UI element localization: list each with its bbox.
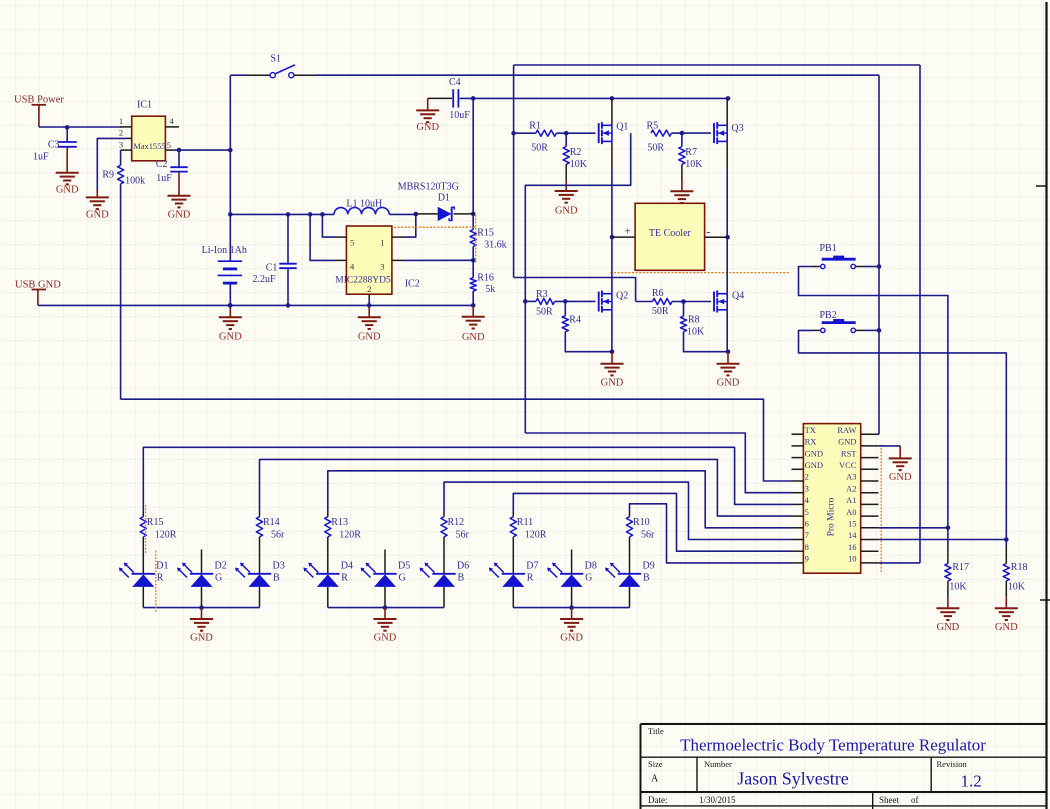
wire R10 net to pin 9 [630,504,792,563]
resistor R18 10K [1005,546,1007,564]
wire S1 right to PB column [316,74,879,76]
svg-text:31.6k: 31.6k [484,239,507,250]
wire R12 net to pin 7 [444,482,792,539]
wire Q4 drain to TE- [726,237,728,294]
svg-text:VCC: VCC [839,460,857,470]
LED D7 (R) [495,564,504,573]
svg-text:TE Cooler: TE Cooler [649,228,692,239]
transistor Q2 [598,292,600,312]
wire pin5 to battery rail [176,149,230,151]
resistor R8 10K [684,301,712,303]
svg-text:14: 14 [848,530,857,540]
svg-text:Q4: Q4 [732,291,744,302]
LED D6 (B) [426,564,435,573]
ground under LEDs [560,618,583,620]
LED D4 (R) [310,564,319,573]
svg-text:C2: C2 [156,159,168,170]
svg-text:9: 9 [805,554,809,564]
svg-text:3: 3 [805,483,809,493]
svg-text:2: 2 [119,128,123,138]
svg-text:GND: GND [168,210,191,221]
svg-text:Thermoelectric Body Temperatur: Thermoelectric Body Temperature Regulato… [680,736,986,755]
svg-text:D7: D7 [526,561,538,572]
svg-text:R9: R9 [102,170,114,181]
svg-text:G: G [399,573,406,584]
ground under LEDs [190,618,213,620]
wire D9 cathode [629,587,631,608]
svg-text:RAW: RAW [837,425,856,435]
svg-text:10K: 10K [687,326,705,337]
svg-text:R: R [341,573,348,584]
svg-text:B: B [643,573,650,584]
wire GND pin to ground [878,445,900,447]
pin 4 [165,126,179,128]
LED D2 (G) [184,564,193,573]
svg-text:D1: D1 [438,192,450,203]
regulator IC2 MIC2288YD5 [346,226,392,294]
wire C3 to GND [66,147,68,173]
LED D9 (B) [612,564,621,573]
op-amp IC1 Max1555 [132,116,166,161]
svg-text:R1: R1 [529,121,541,132]
pin GND (right 2) [861,445,879,447]
stub above D8 [571,550,573,574]
transistor Q1 [598,123,600,143]
svg-text:R15: R15 [477,227,494,238]
svg-text:1uF: 1uF [156,173,172,184]
wire pin 14 [878,539,1006,541]
wire R9 net to pin 2 [121,399,792,481]
pin 1 [121,126,132,128]
ground under R16 [462,316,485,318]
svg-text:3: 3 [380,262,384,272]
pin 2 [126,137,132,139]
resistor R10 56r [629,512,631,517]
pin A3 (right 5) [861,480,879,482]
resistor R1 50R [511,131,516,136]
junction [65,125,70,130]
svg-text:R10: R10 [633,517,650,528]
orange markers near D1 [145,505,147,554]
resistor R17 10K [947,546,949,564]
wire pin2 to GND [97,138,126,190]
svg-text:2.2uF: 2.2uF [253,274,277,285]
pin 3 [121,149,132,151]
svg-text:1/30/2015: 1/30/2015 [699,795,736,805]
svg-text:120R: 120R [155,530,177,541]
svg-text:GND: GND [219,332,242,343]
svg-text:GND: GND [889,472,912,483]
resistor R2 10K [565,133,567,146]
wire C4 net down to divider [472,98,474,229]
svg-text:MIC2288YD5: MIC2288YD5 [335,276,391,286]
svg-text:10: 10 [848,554,857,564]
pin 14 (right 10) [861,539,879,541]
resistor R3 50R [525,300,536,302]
svg-text:GND: GND [601,378,624,389]
pin 2 (left 5) [792,480,804,482]
wire Q1 source to TE+ [611,141,613,168]
pin GND (left 3) [792,457,804,459]
resistor R14 56r [259,512,261,517]
pin 4 [336,259,347,261]
pin 5 [336,236,347,238]
svg-text:50R: 50R [652,306,669,317]
svg-text:D3: D3 [273,561,285,572]
ground under Q4 [717,363,740,365]
svg-text:16: 16 [848,542,857,552]
svg-text:GND: GND [190,633,213,644]
svg-text:5: 5 [350,237,354,247]
resistor R15 120R [142,512,144,517]
wire Q2 drain to TE+ [611,237,613,294]
wire R11 net to pin 8 [513,493,791,551]
wire ground bus [38,304,473,306]
svg-text:A1: A1 [846,495,856,505]
capacitor C3 [66,127,68,141]
ground at Pro Micro [889,457,912,459]
capacitor C2 [178,150,180,167]
wire H-bridge top rail [460,97,728,99]
svg-text:GND: GND [56,185,79,196]
svg-text:R: R [527,573,534,584]
svg-text:A0: A0 [846,507,856,517]
svg-text:+: + [625,225,631,237]
wire R9 down to pin2 staircase [120,184,122,399]
svg-text:Title: Title [648,726,664,736]
pin 2 [368,294,370,300]
ground under C3 [56,172,79,174]
svg-text:7: 7 [805,530,809,540]
svg-text:50R: 50R [531,143,548,154]
wire USB Power to IC1 pin1 [39,126,122,128]
wire battery rail horizontal [230,213,334,215]
wire LED common [513,607,629,609]
title block [641,723,1047,725]
wire LED common [328,607,444,609]
wire PB2 right [864,329,880,331]
resistor R16 5k [472,260,474,277]
svg-text:R16: R16 [477,272,494,283]
wire D7 cathode [512,587,514,608]
wire D6 cathode [443,587,445,608]
svg-text:A2: A2 [846,483,856,493]
pin RX (left 2) [792,445,804,447]
module U1 Pro Micro [803,424,860,574]
sheet border [1045,2,1047,809]
svg-text:10uF: 10uF [449,110,470,121]
pin 8 (left 11) [792,550,804,552]
wire R15 net to pin 4 [143,447,791,512]
transistor Q4 [713,292,715,312]
svg-text:D4: D4 [341,561,353,572]
svg-text:Q2: Q2 [616,291,628,302]
wire Q1 drain [611,98,613,125]
svg-text:120R: 120R [339,530,361,541]
orange marker under TE Cooler [610,272,789,274]
svg-text:C4: C4 [449,77,461,88]
pin A1 (right 7) [861,503,879,505]
svg-text:56r: 56r [271,530,285,541]
svg-text:S1: S1 [271,54,282,65]
svg-text:R: R [157,573,164,584]
ground under R2 [555,190,578,192]
wire PB1 left to pin15/R17 [799,267,948,547]
pin 16 (right 11) [861,550,879,552]
LED D8 (G) [554,564,563,573]
svg-text:D2: D2 [215,561,227,572]
net A wire R5-left down to pin3 [525,133,630,433]
switch S1 [230,74,246,76]
svg-text:Date:: Date: [648,795,668,805]
wire LED common [143,607,259,609]
wire battery rail vertical [229,75,231,261]
svg-text:Sheet: Sheet [879,795,899,805]
svg-text:GND: GND [838,437,856,447]
svg-text:-: - [706,224,710,238]
wire pin 15 [878,527,948,529]
svg-text:Li-Ion 1Ah: Li-Ion 1Ah [202,245,247,256]
svg-text:8: 8 [805,542,809,552]
svg-text:B: B [458,573,465,584]
svg-text:15: 15 [848,519,857,529]
svg-text:Q1: Q1 [616,121,628,132]
orange marker right of Pro Micro [880,445,882,573]
svg-text:GND: GND [462,332,485,343]
svg-text:10K: 10K [570,159,588,170]
svg-text:10K: 10K [949,582,967,593]
LED D1 (R) [125,564,134,573]
svg-text:G: G [585,573,592,584]
pin RAW (right 1) [861,433,879,435]
wire D3 cathode [259,587,261,608]
ground under pin2 [86,196,109,198]
svg-text:GND: GND [358,332,381,343]
svg-text:120R: 120R [525,530,547,541]
pin 6 (left 9) [792,527,804,529]
svg-text:R17: R17 [952,562,969,573]
svg-text:GND: GND [995,622,1018,633]
svg-text:MBRS120T3G: MBRS120T3G [398,181,459,192]
svg-text:GND: GND [937,622,960,633]
svg-text:C3: C3 [48,140,60,151]
svg-text:10K: 10K [1008,582,1026,593]
svg-text:D8: D8 [585,561,597,572]
svg-text:6: 6 [805,519,809,529]
wire net down to R6 [514,278,636,302]
svg-text:5k: 5k [485,284,495,295]
svg-text:R18: R18 [1011,562,1028,573]
svg-text:2: 2 [805,472,809,482]
pin 15 (right 9) [861,527,879,529]
orange marker near R15 divider [475,215,477,263]
svg-text:GND: GND [805,460,823,470]
resistor R5 50R [651,130,672,136]
pin VCC (right 4) [861,468,879,470]
svg-text:G: G [215,573,222,584]
pin 5 [165,149,176,151]
svg-text:GND: GND [805,448,823,458]
wire PB1 right to RAW rail [864,266,880,268]
svg-text:Number: Number [704,759,732,769]
svg-text:R11: R11 [517,517,533,528]
svg-text:PB1: PB1 [820,243,837,254]
svg-text:Max1555: Max1555 [133,142,165,151]
pin 1 [392,236,403,238]
svg-text:Pro Micro: Pro Micro [826,497,836,536]
svg-text:10K: 10K [685,159,703,170]
wire D8 cathode [571,587,573,608]
svg-text:1: 1 [380,237,384,247]
wire R13 net to pin 6 [328,471,792,528]
ground under C2 [168,195,191,197]
pin RST (right 3) [861,457,879,459]
svg-text:R14: R14 [263,517,280,528]
svg-text:RST: RST [841,448,857,458]
pin GND (left 4) [792,468,804,470]
svg-text:B: B [273,573,280,584]
wire D2 cathode [201,587,203,608]
svg-text:GND: GND [560,633,583,644]
wire Q3 source to TE- [726,141,728,168]
svg-text:2: 2 [367,284,371,294]
wire D5 cathode [384,587,386,608]
pin 5 (left 8) [792,515,804,517]
module TE Cooler [635,203,705,270]
svg-text:R5: R5 [647,121,659,132]
LED D3 (B) [242,564,251,573]
stub above D5 [384,550,386,574]
resistor R4 [564,301,566,315]
pin 9 (left 12) [792,562,804,564]
svg-text:GND: GND [416,122,439,133]
wire R14 net to pin 5 [260,459,792,516]
pin 7 (left 10) [792,539,804,541]
ground under R17 [936,607,959,609]
svg-text:GND: GND [717,378,740,389]
transistor Q3 [713,123,715,143]
svg-text:GND: GND [86,210,109,221]
resistor R11 120R [512,512,514,517]
pin 3 [392,259,403,261]
svg-text:56r: 56r [641,530,655,541]
svg-text:1: 1 [119,116,123,126]
svg-text:56r: 56r [456,530,470,541]
resistor R7 10K [681,133,683,146]
svg-text:R6: R6 [652,288,664,299]
svg-text:Q3: Q3 [731,123,743,134]
wire net pin10 top rail [514,64,920,66]
resistor R12 56r [443,512,445,517]
ground under R7 [670,190,693,192]
svg-text:IC2: IC2 [405,278,420,289]
ground under Q2 [601,363,624,365]
resistor R9 100k [120,150,122,165]
pin TX (left 1) [792,433,804,435]
svg-text:R7: R7 [685,147,697,158]
wire pin 10 [878,562,920,564]
svg-text:5: 5 [167,140,171,150]
svg-text:Size: Size [648,759,663,769]
svg-text:D5: D5 [398,561,410,572]
ground under R18 [995,607,1018,609]
ground under LEDs [374,618,397,620]
svg-text:R3: R3 [536,289,548,300]
svg-text:GND: GND [555,206,578,217]
svg-text:Revision: Revision [937,759,968,769]
wire PB2 left to pin14/R18 [799,330,1007,546]
pin A2 (right 6) [861,492,879,494]
svg-text:R2: R2 [570,147,582,158]
pin 4 (left 7) [792,503,804,505]
svg-text:R12: R12 [448,517,465,528]
svg-text:100k: 100k [125,176,145,187]
svg-text:RX: RX [805,437,817,447]
svg-text:A: A [651,774,659,785]
pin A0 (right 8) [861,515,879,517]
pin 3 (left 6) [792,492,804,494]
svg-text:TX: TX [805,425,816,435]
svg-text:D9: D9 [643,561,655,572]
ground under IC2 [358,316,381,318]
svg-text:1.2: 1.2 [961,772,982,791]
ground under battery [219,316,242,318]
LED D5 (G) [367,564,376,573]
capacitor C1 2.2uF [287,214,289,263]
ground at C4 [416,109,439,111]
svg-text:IC1: IC1 [137,100,152,111]
wire Q2 source to GND [611,310,613,352]
svg-text:of: of [911,795,919,805]
wire RAW rail continues [878,267,880,435]
pin 10 (right 12) [861,562,879,564]
wire D1 cathode [142,587,144,608]
svg-text:D6: D6 [457,561,469,572]
resistor R13 120R [327,512,329,517]
svg-text:50R: 50R [647,143,664,154]
svg-text:Jason Sylvestre: Jason Sylvestre [737,768,849,788]
svg-text:C1: C1 [266,262,278,273]
wire Q3 drain [726,98,728,125]
svg-text:D1: D1 [156,561,168,572]
svg-text:A3: A3 [846,472,856,482]
svg-text:3: 3 [119,139,123,149]
wire D4 cathode [327,587,329,608]
resistor R6 50R [636,301,653,303]
svg-text:1uF: 1uF [33,152,49,163]
svg-text:R8: R8 [688,314,700,325]
svg-text:4: 4 [805,495,810,505]
stub above D2 [201,550,203,574]
svg-text:50R: 50R [536,307,553,318]
svg-text:R13: R13 [331,517,348,528]
wire Q4 source to GND [726,310,728,352]
svg-text:R4: R4 [569,314,581,325]
svg-text:GND: GND [374,633,397,644]
resistor R15 31.6k [470,230,476,247]
svg-text:R15: R15 [147,517,164,528]
svg-text:5: 5 [805,507,809,517]
